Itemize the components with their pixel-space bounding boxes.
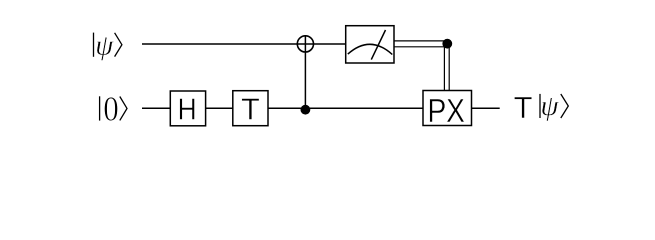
- svg-text:T: T: [514, 91, 533, 125]
- svg-text:ψ: ψ: [95, 30, 114, 62]
- svg-text:0: 0: [103, 90, 119, 129]
- svg-text:PX: PX: [427, 92, 465, 129]
- svg-text:ψ: ψ: [541, 90, 560, 122]
- svg-text:H: H: [178, 92, 197, 127]
- svg-text:T: T: [241, 93, 260, 127]
